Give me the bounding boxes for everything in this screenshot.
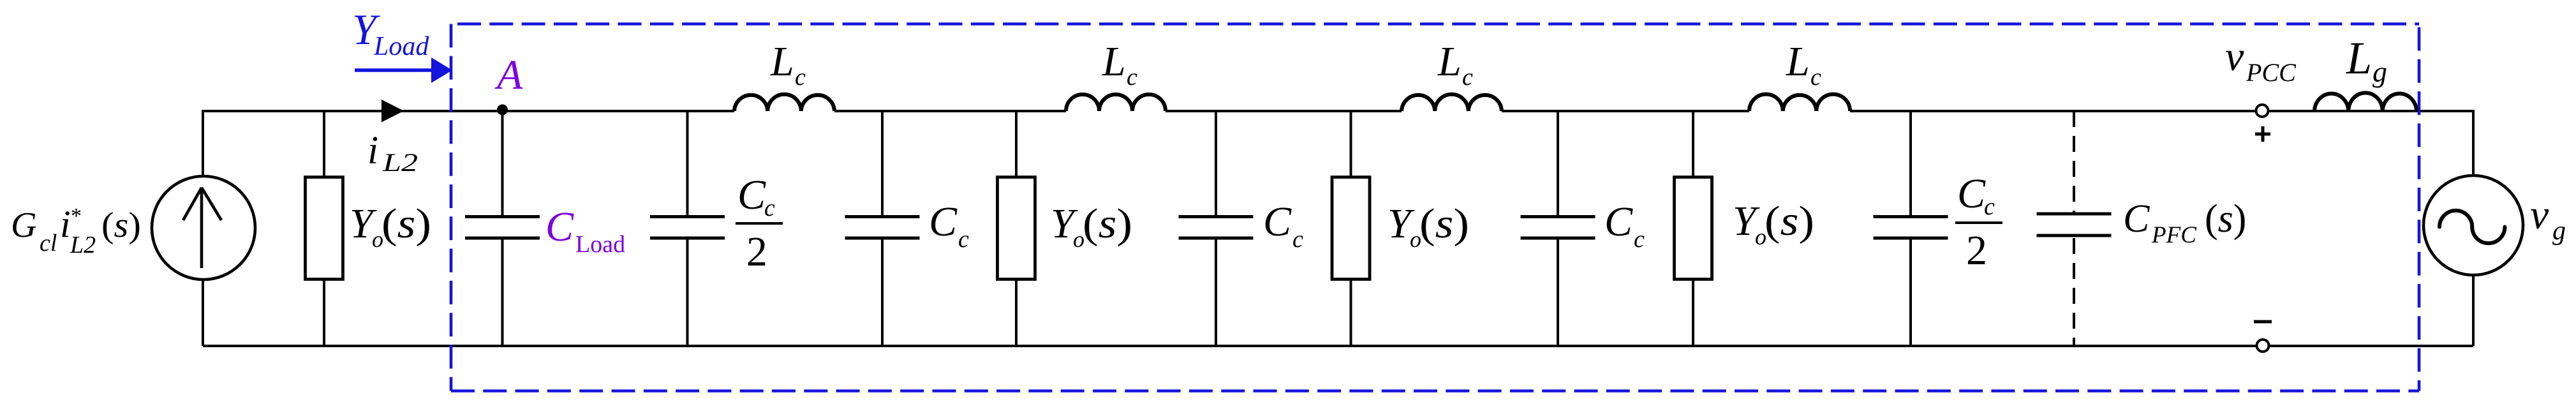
label C_Load <box>545 204 625 258</box>
label Cc3 <box>1604 198 1645 253</box>
svg-text:A: A <box>494 52 523 98</box>
svg-text:i: i <box>367 129 378 172</box>
resistor Yo4 <box>1692 111 1694 346</box>
svg-text:PFC: PFC <box>2151 222 2197 248</box>
svg-text:c: c <box>958 226 969 253</box>
inductor Lg <box>2314 93 2417 111</box>
capacitor Cc/2 first <box>686 111 689 346</box>
svg-text:L: L <box>2346 33 2372 84</box>
label v_PCC <box>2225 33 2297 87</box>
wire bottom <box>203 345 2473 347</box>
svg-text:v: v <box>2530 191 2549 238</box>
capacitor Cc1 <box>881 111 884 346</box>
svg-text:L: L <box>1102 38 1126 85</box>
terminal top <box>2256 105 2269 117</box>
svg-text:c: c <box>1127 64 1137 91</box>
svg-text:c: c <box>1984 193 1995 220</box>
svg-text:(s): (s) <box>1083 200 1132 247</box>
ac source vg <box>2424 176 2523 275</box>
svg-text:C: C <box>1604 198 1633 245</box>
label Lg <box>2346 33 2387 88</box>
label Cc/2 first <box>736 172 783 275</box>
label Lc2 <box>1102 38 1137 91</box>
svg-text:c: c <box>1810 64 1821 91</box>
wire left vertical <box>202 110 204 346</box>
svg-text:Load: Load <box>575 231 625 258</box>
svg-text:c: c <box>1634 226 1645 253</box>
svg-text:*: * <box>71 204 82 228</box>
svg-text:L: L <box>1437 38 1462 85</box>
svg-text:2: 2 <box>1966 227 1987 274</box>
label Lc1 <box>770 38 806 91</box>
svg-text:(s): (s) <box>381 200 431 247</box>
svg-text:L2: L2 <box>382 148 418 177</box>
resistor Yo1 <box>323 111 325 346</box>
label Yo1 <box>350 200 431 252</box>
svg-text:Load: Load <box>373 32 429 61</box>
svg-text:(s): (s) <box>1765 198 1814 244</box>
inductor Lc2 <box>1066 94 1166 111</box>
capacitor Cc2 <box>1215 111 1217 346</box>
svg-text:(s): (s) <box>2205 197 2246 241</box>
svg-text:(s): (s) <box>101 206 141 245</box>
current source G_cl <box>152 176 255 280</box>
svg-text:L: L <box>770 38 794 85</box>
label Cc/2 second <box>1955 170 2002 274</box>
inductor Lc3 <box>1402 94 1502 111</box>
capacitor C_Load <box>501 110 504 346</box>
label Lc3 <box>1437 38 1473 91</box>
svg-text:c: c <box>1292 226 1303 253</box>
node A <box>497 105 508 116</box>
svg-text:C: C <box>1263 198 1292 245</box>
label Lc4 <box>1786 38 1821 91</box>
svg-text:C: C <box>737 172 766 218</box>
blue arrow Y_Load <box>355 68 431 72</box>
svg-text:2: 2 <box>746 228 767 275</box>
arrow i_L2 <box>381 100 404 123</box>
svg-text:(s): (s) <box>1419 200 1469 247</box>
label vg <box>2530 191 2566 246</box>
svg-text:g: g <box>2552 216 2566 246</box>
wire right vertical <box>2472 110 2475 346</box>
capacitor Cc/2 second <box>1909 111 1912 346</box>
inductor Lc1 <box>734 94 834 111</box>
label Yo3 <box>1388 200 1469 252</box>
svg-text:i: i <box>60 203 71 245</box>
capacitor C_PFC dashed <box>2073 111 2075 213</box>
label Yo4 <box>1733 198 1814 250</box>
label Cc1 <box>929 198 969 253</box>
svg-text:L: L <box>1786 38 1810 85</box>
svg-text:c: c <box>764 195 775 221</box>
svg-text:c: c <box>795 64 806 91</box>
minus sign <box>2254 320 2272 324</box>
capacitor Cc3 <box>1557 111 1559 346</box>
label G_cl i*_L2(s) <box>11 203 141 258</box>
blue dashed box <box>451 24 2419 391</box>
label Y_Load <box>352 5 429 61</box>
svg-text:C: C <box>929 198 958 245</box>
svg-text:L2: L2 <box>70 232 96 258</box>
svg-text:c: c <box>1462 64 1473 91</box>
resistor Yo3 <box>1350 111 1352 346</box>
label Cc2 <box>1263 198 1303 253</box>
svg-text:C: C <box>2123 197 2150 241</box>
svg-text:G: G <box>11 206 36 245</box>
label i_L2 <box>367 129 418 177</box>
svg-text:C: C <box>1957 170 1986 217</box>
svg-text:v: v <box>2225 33 2244 80</box>
svg-text:g: g <box>2372 56 2387 88</box>
resistor Yo2 <box>1015 111 1018 346</box>
terminal bottom <box>2257 340 2269 352</box>
label Yo2 <box>1051 200 1132 252</box>
svg-text:cl: cl <box>40 230 57 257</box>
svg-text:C: C <box>545 204 574 250</box>
svg-text:PCC: PCC <box>2246 58 2297 87</box>
inductor Lc4 <box>1749 94 1850 111</box>
label C_PFC(s) <box>2123 197 2246 248</box>
wire top <box>203 110 2473 112</box>
plus sign <box>2255 126 2270 142</box>
